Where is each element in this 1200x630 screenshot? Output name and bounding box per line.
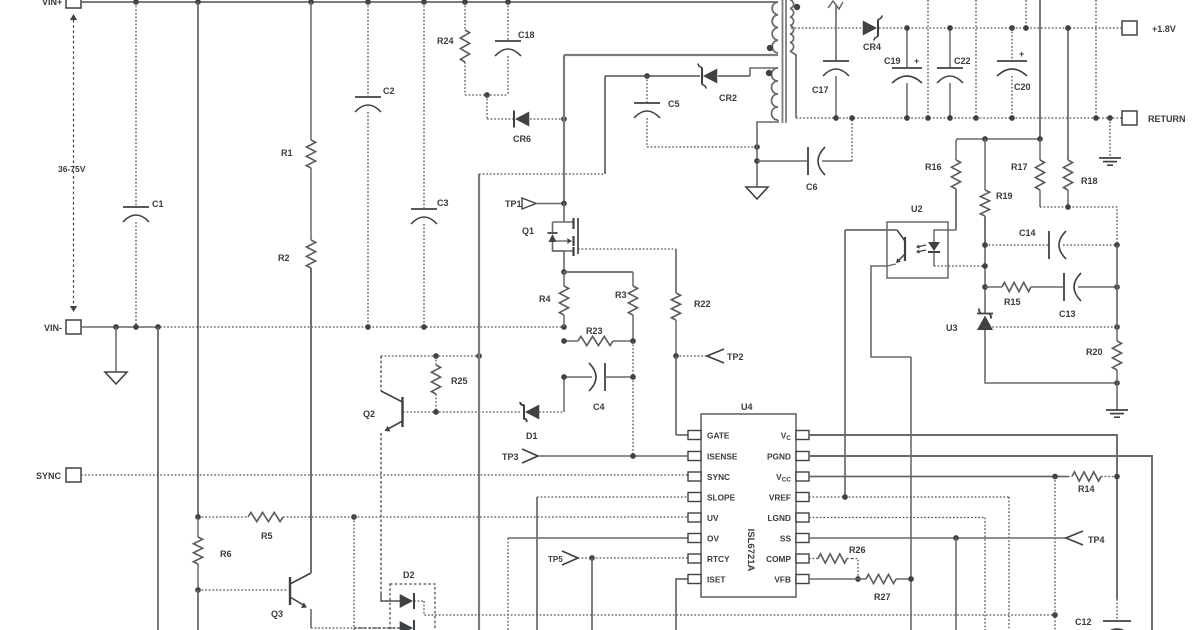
resistor R16 bbox=[955, 141, 957, 160]
svg-text:R23: R23 bbox=[586, 326, 603, 336]
svg-text:SS: SS bbox=[780, 533, 792, 543]
wire +1.8V rail bbox=[791, 27, 863, 29]
capacitor C18 bbox=[507, 2, 509, 41]
wire source sense y=272 bbox=[564, 271, 633, 273]
zener diode D1 bbox=[525, 405, 539, 420]
wire OV net bbox=[508, 537, 688, 539]
wire U2 led anode to R16 bbox=[955, 189, 957, 230]
svg-text:R3: R3 bbox=[615, 290, 627, 300]
svg-text:R27: R27 bbox=[874, 592, 891, 602]
capacitor C20 bbox=[1011, 28, 1013, 61]
wire opto emitter bbox=[887, 264, 896, 266]
svg-text:+: + bbox=[914, 56, 919, 66]
svg-text:R22: R22 bbox=[694, 299, 711, 309]
svg-text:R14: R14 bbox=[1078, 484, 1095, 494]
svg-text:R19: R19 bbox=[996, 191, 1013, 201]
wire opto collector to VREF bbox=[845, 229, 897, 231]
resistor R23 bbox=[564, 340, 578, 342]
resistor R1 bbox=[310, 2, 312, 140]
wire snubber node x=564 bbox=[563, 55, 565, 203]
diode D2b bbox=[354, 627, 400, 629]
svg-text:C19: C19 bbox=[884, 56, 901, 66]
svg-text:C12: C12 bbox=[1075, 617, 1092, 627]
resistor R2 bbox=[310, 239, 312, 241]
wire PGND net bbox=[809, 456, 1152, 630]
transformer T1 core bbox=[782, 0, 784, 123]
wire VCC column x=1055 bbox=[1054, 477, 1056, 630]
resistor R3 bbox=[632, 272, 634, 286]
wire line x=1026 bbox=[1025, 0, 1027, 28]
capacitor C1 bbox=[135, 2, 137, 207]
wire output sense x=1040 bbox=[1039, 0, 1041, 139]
opto led bbox=[934, 230, 956, 242]
svg-text:R26: R26 bbox=[849, 545, 866, 555]
diode CR2 bbox=[605, 75, 700, 77]
wire sec line x=928 bbox=[927, 0, 929, 118]
svg-text:TP2: TP2 bbox=[727, 352, 744, 362]
wire bus column x=198 bbox=[197, 2, 199, 517]
wire Q3 base bbox=[198, 589, 288, 591]
resistor R14 bbox=[1068, 476, 1072, 478]
svg-text:GATE: GATE bbox=[707, 430, 730, 440]
diode CR6 bbox=[487, 118, 513, 120]
wire U3 anode bbox=[985, 330, 1117, 383]
wire divider node y=208 bbox=[1040, 207, 1117, 245]
transistor Q1 nmos bbox=[553, 203, 565, 232]
output terminal RETURN bbox=[1122, 111, 1137, 125]
wire ISENSE net bbox=[538, 455, 688, 457]
resistor R26 bbox=[816, 558, 818, 560]
input terminal VIN+ bbox=[66, 0, 81, 8]
svg-text:TP1: TP1 bbox=[505, 199, 522, 209]
resistor R19 bbox=[984, 139, 986, 190]
input terminal VIN- bbox=[66, 320, 81, 334]
capacitor C6 bbox=[754, 158, 760, 164]
wire Q2 collector net bbox=[381, 355, 479, 357]
svg-text:UV: UV bbox=[707, 513, 719, 523]
wire COMP net bbox=[809, 558, 816, 560]
svg-text:C4: C4 bbox=[593, 402, 605, 412]
resistor R15 bbox=[985, 286, 1002, 288]
svg-text:LGND: LGND bbox=[767, 513, 791, 523]
transformer T1 aux winding bbox=[772, 68, 778, 120]
wire line x=1096 bbox=[1095, 0, 1097, 118]
svg-text:D1: D1 bbox=[526, 431, 538, 441]
wire VCC feed y=615 bbox=[424, 601, 1055, 615]
svg-text:R18: R18 bbox=[1081, 176, 1098, 186]
wire VCC net bbox=[809, 476, 1068, 478]
transistor Q3 bbox=[289, 577, 291, 605]
node primary phase dot bbox=[767, 45, 773, 51]
svg-text:R6: R6 bbox=[220, 549, 232, 559]
svg-text:VIN+: VIN+ bbox=[42, 0, 62, 7]
wire U3 cathode net bbox=[985, 326, 1117, 328]
svg-text:VREF: VREF bbox=[769, 492, 791, 502]
wire x=158 column bbox=[157, 327, 159, 630]
svg-text:OV: OV bbox=[707, 533, 719, 543]
wire R3 column x=633 bbox=[632, 341, 634, 456]
svg-text:COMP: COMP bbox=[766, 554, 791, 564]
svg-text:R15: R15 bbox=[1004, 297, 1021, 307]
test point TP1 bbox=[522, 198, 536, 209]
svg-text:VFB: VFB bbox=[774, 574, 791, 584]
svg-text:+1.8V: +1.8V bbox=[1152, 24, 1176, 34]
resistor R27 bbox=[858, 578, 866, 580]
node VIN- junctions bbox=[113, 324, 119, 330]
node R22 bottom / TP2 bbox=[673, 353, 679, 359]
svg-text:R20: R20 bbox=[1086, 347, 1103, 357]
wire secondary bottom to return rail bbox=[790, 51, 796, 118]
svg-text:ISL6721A: ISL6721A bbox=[745, 529, 756, 572]
transformer T1 primary winding bbox=[772, 2, 778, 53]
svg-text:Q1: Q1 bbox=[522, 226, 534, 236]
output terminal +1.8V bbox=[1122, 21, 1137, 35]
svg-text:U2: U2 bbox=[911, 204, 923, 214]
svg-text:ISET: ISET bbox=[707, 574, 725, 584]
wire SS net bbox=[809, 537, 1066, 539]
ground primary bbox=[115, 327, 117, 372]
node +1.8V rail junctions bbox=[904, 25, 910, 31]
diode D2a bbox=[381, 600, 400, 602]
node secondary phase dot bbox=[794, 4, 800, 10]
svg-text:C3: C3 bbox=[437, 198, 449, 208]
svg-text:TP3: TP3 bbox=[502, 452, 519, 462]
svg-text:C2: C2 bbox=[383, 86, 395, 96]
opto transistor bbox=[904, 237, 906, 261]
terminal SYNC bbox=[66, 468, 81, 482]
resistor R18 bbox=[1067, 159, 1069, 161]
capacitor C3 bbox=[423, 2, 425, 209]
svg-text:ISENSE: ISENSE bbox=[707, 451, 738, 461]
ground secondary bbox=[1109, 118, 1111, 158]
transistor Q2 bbox=[380, 356, 382, 391]
capacitor C2 bbox=[367, 2, 369, 97]
svg-text:C5: C5 bbox=[668, 99, 680, 109]
wire R26 to VFB bbox=[852, 559, 858, 580]
svg-text:Q2: Q2 bbox=[363, 409, 375, 419]
svg-text:CR2: CR2 bbox=[719, 93, 737, 103]
wire aux top lead bbox=[750, 68, 778, 76]
wire LGND net bbox=[809, 517, 985, 519]
wire Q3 emitter down bbox=[310, 609, 312, 628]
svg-text:VIN-: VIN- bbox=[44, 323, 62, 333]
capacitor C19 bbox=[906, 28, 908, 68]
svg-text:C20: C20 bbox=[1014, 82, 1031, 92]
capacitor C5 bbox=[644, 73, 650, 79]
wire feedback top y=139 bbox=[956, 139, 1040, 141]
node R6 bottom bbox=[195, 587, 201, 593]
wire gate to U4 bbox=[675, 356, 677, 435]
test point TP3 bbox=[522, 449, 538, 463]
wire Q2 emitter down bbox=[380, 433, 382, 599]
wire aux column x=605 bbox=[604, 76, 606, 174]
resistor R17 bbox=[1039, 139, 1041, 160]
node VIN+ bus junctions bbox=[133, 0, 139, 5]
resistor R4 bbox=[563, 272, 565, 286]
transformer T1 secondary winding bbox=[790, 0, 794, 51]
svg-text:U4: U4 bbox=[741, 402, 753, 412]
resistor R22 bbox=[675, 292, 677, 294]
svg-text:R17: R17 bbox=[1011, 162, 1028, 172]
svg-text:CR4: CR4 bbox=[863, 42, 881, 52]
ground feedback bbox=[1116, 383, 1118, 410]
svg-text:C6: C6 bbox=[806, 182, 818, 192]
wire Q2 base / D1 net bbox=[403, 411, 521, 413]
svg-text:C22: C22 bbox=[954, 56, 971, 66]
resistor R5 bbox=[198, 516, 248, 518]
svg-text:RETURN: RETURN bbox=[1148, 114, 1186, 124]
svg-text:C14: C14 bbox=[1019, 228, 1036, 238]
wire aux winding bottom lead bbox=[757, 120, 778, 187]
input range arrow 36-75V bbox=[73, 20, 75, 306]
wire VC net bbox=[809, 435, 1117, 599]
wire VIN- rail bbox=[81, 326, 160, 328]
wire RTCY net bbox=[578, 557, 688, 559]
svg-text:TP5: TP5 bbox=[548, 555, 563, 564]
svg-text:C1: C1 bbox=[152, 199, 164, 209]
wire x=198 lower bbox=[197, 590, 199, 630]
svg-text:36-75V: 36-75V bbox=[58, 164, 86, 174]
wire C5 return y=147 bbox=[647, 146, 757, 148]
wire aux feed y=174 bbox=[479, 173, 605, 175]
IC U4 ISL6721A bbox=[701, 414, 796, 597]
resistor R6 bbox=[197, 517, 199, 537]
svg-text:TP4: TP4 bbox=[1088, 535, 1105, 545]
svg-text:C17: C17 bbox=[812, 85, 829, 95]
node UV divider bbox=[195, 514, 201, 520]
svg-text:SLOPE: SLOPE bbox=[707, 492, 736, 502]
svg-text:R4: R4 bbox=[539, 294, 551, 304]
wire R18 top x=1068 bbox=[1067, 28, 1069, 160]
wire R24/C18 bottom bbox=[465, 94, 508, 96]
wire Q3 collector bbox=[310, 268, 312, 573]
node Q1 source bbox=[561, 269, 567, 275]
test point TP2 bbox=[676, 355, 707, 357]
resistor R25 bbox=[435, 356, 437, 365]
diode CR4 bbox=[863, 21, 877, 36]
svg-text:SYNC: SYNC bbox=[707, 472, 730, 482]
wire Q1 gate net bbox=[578, 248, 676, 250]
svg-text:SYNC: SYNC bbox=[36, 471, 62, 481]
wire VREF net bbox=[809, 496, 1009, 498]
svg-text:R5: R5 bbox=[261, 531, 273, 541]
optocoupler U2 bbox=[887, 222, 948, 278]
capacitor C14 bbox=[985, 244, 1048, 246]
capacitor C12 bbox=[1116, 599, 1118, 621]
wire feedback column x=985 bbox=[984, 216, 986, 314]
node aux phase dot bbox=[766, 70, 772, 76]
svg-text:CR6: CR6 bbox=[513, 134, 531, 144]
wire ISET net bbox=[676, 579, 688, 630]
ground aux bbox=[746, 187, 768, 199]
capacitor C17 bbox=[828, 1, 843, 9]
node RETURN junctions bbox=[833, 115, 839, 121]
capacitor C13 bbox=[1063, 273, 1065, 301]
svg-text:C18: C18 bbox=[518, 30, 535, 40]
svg-text:R2: R2 bbox=[278, 253, 290, 263]
svg-text:U3: U3 bbox=[946, 323, 958, 333]
wire VFB net bbox=[809, 578, 858, 580]
wire UV net bbox=[354, 516, 688, 518]
capacitor C4 bbox=[564, 376, 592, 378]
wire RETURN rail bbox=[796, 117, 1122, 119]
resistor R20 bbox=[1116, 327, 1118, 341]
svg-text:Q3: Q3 bbox=[271, 609, 283, 619]
svg-text:C13: C13 bbox=[1059, 309, 1076, 319]
wire aux rail x=479 bbox=[478, 174, 480, 630]
test point TP4 bbox=[1066, 531, 1083, 545]
test point TP5 bbox=[562, 551, 578, 565]
svg-text:RTCY: RTCY bbox=[707, 554, 730, 564]
svg-text:+: + bbox=[1019, 49, 1024, 59]
svg-text:R16: R16 bbox=[925, 162, 942, 172]
diode pack D2 bbox=[390, 584, 435, 630]
wire feedback column x=1117 bbox=[1116, 245, 1118, 327]
capacitor C22 bbox=[949, 28, 951, 68]
svg-text:D2: D2 bbox=[403, 570, 415, 580]
node VCC feed bbox=[1052, 612, 1058, 618]
node clamp junction bbox=[561, 116, 567, 122]
svg-text:R1: R1 bbox=[281, 148, 293, 158]
wire sec line x=976 bbox=[975, 0, 977, 118]
wire VIN+ bus y=2 bbox=[81, 1, 778, 3]
resistor R24 bbox=[464, 2, 466, 30]
svg-text:PGND: PGND bbox=[767, 451, 791, 461]
wire SYNC net bbox=[81, 474, 688, 476]
svg-text:R24: R24 bbox=[437, 36, 454, 46]
wire primary return y=55 bbox=[564, 54, 778, 56]
wire x=354 column bbox=[353, 517, 355, 630]
wire opto led cathode bbox=[934, 265, 984, 267]
wire SLOPE net bbox=[537, 496, 688, 498]
svg-text:R25: R25 bbox=[451, 376, 468, 386]
